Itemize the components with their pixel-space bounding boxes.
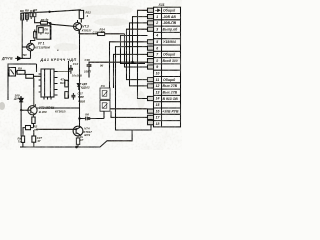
capacitor C19 (near VT4) — [79, 111, 104, 120]
label DA1 КР594 ЧДП — [40, 58, 77, 62]
svg-text:ЧВ05: ЧВ05 — [78, 100, 85, 104]
svg-text:9: 9 — [156, 65, 158, 69]
svg-text:4: 4 — [155, 34, 158, 38]
svg-text:У15/904: У15/904 — [163, 40, 176, 44]
label C17 — [78, 91, 84, 99]
connector net labels — [162, 9, 179, 114]
svg-text:тр: тр — [45, 32, 49, 35]
svg-text:Выпр.об: Выпр.об — [163, 28, 179, 32]
label X11 header — [158, 3, 165, 7]
svg-text:10х16В: 10х16В — [72, 74, 82, 78]
svg-text:2: 2 — [155, 21, 158, 25]
connector pin arrow row1 — [155, 9, 160, 12]
scan noise smudges — [0, 5, 145, 110]
resistor R2 — [26, 13, 29, 21]
wire: bus vertical B (row2 to row9) — [133, 17, 148, 63]
svg-text:100П: 100П — [84, 70, 92, 74]
label R22 — [34, 124, 39, 131]
label VD5 — [81, 82, 90, 89]
wire: mid vertical bus x68 — [68, 61, 70, 98]
svg-text:КД102: КД102 — [81, 85, 90, 89]
svg-text:ДПЧ’В: ДПЧ’В — [1, 57, 13, 61]
svg-text:R1б: R1б — [60, 81, 66, 85]
IC DA1 box — [39, 69, 58, 100]
svg-text:1: 1 — [156, 15, 158, 19]
transistor VT3 — [50, 20, 81, 34]
resistor R22 (horizontal small) — [23, 126, 34, 137]
label C21 — [36, 136, 42, 143]
wire: bus vertical E (R14 wire to row10) — [125, 34, 148, 67]
svg-text:+30В РУВ: +30В РУВ — [162, 109, 179, 113]
svg-text:6: 6 — [156, 46, 158, 50]
svg-text:Вых 27В: Вых 27В — [163, 91, 178, 95]
svg-text:КТ361Б: КТ361Б — [55, 109, 66, 113]
svg-text:0б: 0б — [100, 63, 104, 67]
svg-text:С11: С11 — [93, 31, 98, 35]
label C16 — [84, 58, 92, 74]
label R23 — [18, 136, 22, 143]
svg-text:Вых 27В: Вых 27В — [163, 84, 178, 88]
resistor R10 (horizontal) — [26, 64, 41, 106]
svg-text:-30В АВ: -30В АВ — [163, 15, 177, 19]
svg-text:R6: R6 — [20, 9, 24, 13]
transistor VT4 — [36, 126, 83, 138]
resistor R9 (horizontal) — [17, 70, 26, 74]
input terminal ДПЧ В — [15, 57, 30, 61]
label C13 — [72, 62, 82, 78]
resistor R14 (horizontal, mid right) — [80, 32, 125, 35]
wire: bottom ground bus — [20, 130, 132, 147]
resistor R21 (under VT2) — [32, 115, 35, 128]
svg-text:VT2 МП4Х: VT2 МП4Х — [39, 106, 55, 110]
svg-text:Общий: Общий — [163, 53, 176, 57]
relay K2 box — [100, 100, 110, 111]
resistor R5 (on vertical feed) — [79, 10, 83, 22]
connector pin numbers — [155, 15, 160, 126]
capacitor C17 — [71, 93, 75, 100]
node junction on rail — [49, 11, 50, 12]
capacitor C21 (electrolytic bottom) — [32, 130, 36, 147]
label stray mark — [57, 49, 59, 52]
resistor R4 — [33, 10, 36, 16]
label near IC bottom — [78, 63, 104, 103]
value label R5 — [86, 10, 92, 17]
svg-text:14: 14 — [156, 97, 160, 101]
svg-text:С16: С16 — [85, 58, 91, 62]
svg-text:3: 3 — [156, 27, 158, 31]
svg-text:R7: R7 — [41, 18, 45, 22]
resistor R23 (bottom left) — [21, 136, 24, 147]
wire: bus vertical D (row4 to row12) — [127, 29, 148, 79]
label K1 — [101, 84, 106, 88]
wire: long row9 net to C16 node — [90, 61, 148, 63]
jack X1 — [9, 68, 17, 77]
svg-text:ВУЗ: ВУЗ — [84, 133, 90, 137]
svg-text:18: 18 — [156, 122, 160, 126]
resistor R17 — [65, 92, 68, 99]
label R9 — [18, 66, 22, 70]
svg-text:5МР: 5МР — [78, 95, 84, 99]
svg-text:11: 11 — [156, 78, 160, 82]
value labels of top resistors — [20, 8, 38, 13]
scan grain overlay — [0, 0, 182, 150]
svg-text:Общий: Общий — [163, 9, 176, 13]
svg-text:-30В-ПВ: -30В-ПВ — [163, 21, 177, 25]
shield frame (dashed box left) — [8, 64, 37, 100]
connector pin boxes (left of table) — [148, 8, 154, 125]
label C19 — [85, 112, 90, 116]
svg-text:4: 4 — [86, 14, 89, 18]
svg-text:Общий: Общий — [163, 78, 176, 82]
resistor R1 — [21, 13, 24, 58]
wire: bus vertical H (row8 feed) — [114, 54, 148, 88]
svg-text:П6: П6 — [44, 27, 48, 31]
svg-text:47: 47 — [36, 139, 41, 143]
svg-text:15: 15 — [156, 103, 160, 107]
resistor R8 (vertical, left of trimmer) — [31, 30, 37, 44]
wire: bus vertical A (row1 to row15) — [138, 10, 148, 98]
wire: bus vertical x120 (row5 to row9 area) — [121, 36, 148, 64]
relay K1 box — [100, 88, 110, 99]
diode VD5 — [77, 84, 80, 91]
svg-text:7л: 7л — [18, 139, 22, 143]
capacitor C13 (electrolytic) — [58, 65, 74, 74]
transistor VT2 — [20, 104, 79, 115]
svg-text:В 913 ОВ: В 913 ОВ — [163, 97, 179, 101]
label 100 ДИЧ — [13, 93, 23, 100]
diode VD2 — [19, 96, 23, 136]
wire: bus vertical C (row3 to row13) — [130, 23, 148, 86]
label VT4 — [83, 127, 92, 137]
svg-text:КТ815Г: КТ815Г — [82, 28, 92, 32]
resistor R16 — [65, 80, 68, 87]
svg-text:R9: R9 — [18, 66, 22, 70]
wire: bus vertical F (row6 feed to relay K1) — [110, 42, 148, 88]
resistor R3 — [30, 13, 32, 19]
trimmer block R6 — [37, 26, 51, 39]
svg-text:5: 5 — [156, 40, 158, 44]
connector X11 table — [154, 7, 181, 127]
label R16 — [60, 77, 66, 85]
label R24 — [80, 135, 84, 142]
wire: bus vertical G (row7 feed, long to bottom row) — [116, 47, 152, 130]
svg-text:Х11: Х11 — [158, 3, 165, 7]
wire: relay bottom to row17 — [111, 111, 148, 117]
svg-text:12: 12 — [156, 84, 160, 88]
svg-text:КТ3107БМ: КТ3107БМ — [35, 46, 50, 50]
svg-text:В 200: В 200 — [39, 110, 47, 114]
wire: relay K2 to row16 — [111, 108, 148, 110]
wire: top supply rail — [22, 10, 82, 13]
transistor VT1 — [22, 43, 34, 58]
svg-text:Вход 30V: Вход 30V — [163, 59, 179, 63]
svg-text:1Р: 1Р — [80, 138, 83, 142]
svg-text:ДА1 КР5ЧЧ ЧДП: ДА1 КР5ЧЧ ЧДП — [40, 58, 77, 62]
label VT1 КТ3107БМ — [35, 41, 50, 49]
svg-text:R8: R8 — [25, 9, 29, 13]
svg-text:10: 10 — [156, 72, 160, 76]
resistor R24 (under VT4) — [76, 138, 79, 147]
svg-text:4к: 4к — [45, 17, 50, 21]
value label R14 — [93, 27, 106, 34]
svg-text:13: 13 — [156, 90, 160, 94]
svg-text:16: 16 — [156, 109, 160, 113]
wire: long mid vertical from VT3 to VT4 — [79, 31, 81, 127]
value label inside trimmer — [44, 27, 49, 35]
svg-text:10: 10 — [101, 30, 105, 34]
label VT2 МП41 — [39, 106, 66, 114]
value label R7 — [41, 17, 49, 21]
svg-text:R2: R2 — [33, 8, 37, 12]
label VT3 — [82, 25, 92, 33]
capacitor C16 — [87, 62, 92, 78]
label input — [1, 53, 28, 61]
svg-text:8: 8 — [156, 59, 158, 63]
paper background — [0, 0, 182, 150]
resistor R7 (horizontal) — [35, 17, 52, 40]
